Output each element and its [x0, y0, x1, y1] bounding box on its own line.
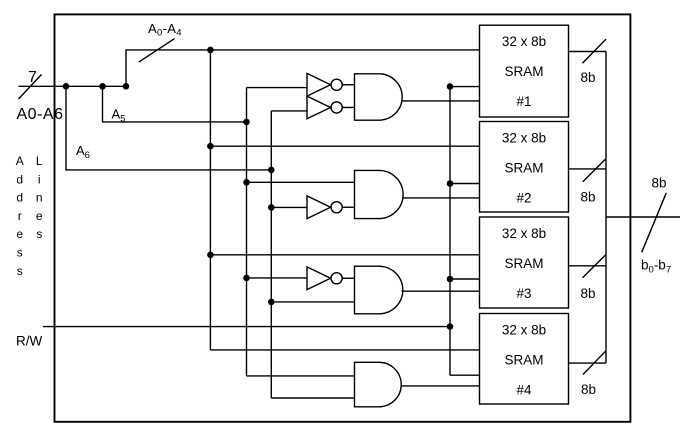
label Lines (vertical)	[36, 154, 43, 241]
wire A5 to AND gate 2 top input	[247, 181, 355, 183]
svg-text:SRAM: SRAM	[504, 64, 543, 79]
node junction on input line (A6 tap)	[63, 83, 70, 90]
SRAM #4 box	[480, 314, 569, 405]
wire A6 to AND gate 4 bottom input	[271, 397, 354, 399]
wire A6 branch	[66, 86, 271, 170]
wire U2 bubble to AND1	[342, 106, 354, 108]
wire A5 to inverter U5	[247, 277, 308, 279]
wire A6 to inverter U2	[271, 110, 307, 112]
wire R/W to SRAM4	[450, 374, 480, 376]
wire A6 to AND gate 3 bottom input	[271, 301, 354, 303]
wire A0-A4 to SRAM4	[210, 349, 479, 351]
SRAM #2 box	[480, 122, 569, 213]
wire R/W to SRAM1	[450, 86, 480, 88]
svg-text:7: 7	[28, 69, 37, 86]
wire R/W vertical rail	[449, 87, 451, 376]
svg-text:8b: 8b	[580, 70, 595, 85]
wire SRAM2 output bus	[569, 168, 607, 170]
wire A5 vertical rail	[246, 88, 248, 376]
wire A5 to inverter U1	[247, 87, 308, 89]
wire R/W input line	[43, 326, 450, 328]
svg-text:A0-A6: A0-A6	[17, 106, 64, 123]
svg-text:#2: #2	[516, 191, 531, 206]
wire A6 to inverter U4	[271, 206, 307, 208]
svg-text:#1: #1	[516, 94, 531, 109]
svg-text:32 x 8b: 32 x 8b	[502, 226, 546, 241]
AND gate 2	[355, 170, 404, 218]
wire AND2 output to SRAM2	[402, 197, 480, 199]
svg-text:SRAM: SRAM	[504, 256, 543, 271]
node junction A5 joins rail	[243, 119, 250, 126]
wire U5 bubble to AND3	[342, 277, 354, 279]
AND gate 3	[355, 266, 403, 314]
svg-text:d: d	[16, 172, 23, 186]
inverter U1 (A5, gate1 top)	[307, 73, 331, 96]
node junction on input line (A5 tap)	[99, 83, 106, 90]
wire A6 vertical rail	[270, 111, 272, 398]
node junction A6 joins rail	[268, 167, 275, 174]
wire R/W to SRAM2	[450, 183, 480, 185]
wire SRAM3 output bus	[569, 265, 607, 267]
inverter U5 (A5, gate3 top)	[307, 267, 331, 290]
wire U1 bubble to AND1	[342, 84, 354, 86]
node junction on input line (A0-A4 tap)	[123, 83, 130, 90]
bus slash SRAM2 output	[583, 159, 606, 182]
wire A5 to AND gate 4 top input	[247, 375, 355, 377]
svg-text:8b: 8b	[580, 286, 595, 301]
SRAM #1 box	[480, 25, 569, 117]
wire U4 bubble to AND2	[342, 206, 354, 208]
node junction A6 to inverter U4	[268, 204, 275, 211]
bus slash on A0-A6 input	[19, 75, 42, 100]
svg-text:s: s	[36, 227, 42, 241]
svg-text:s: s	[17, 246, 23, 260]
svg-text:32 x 8b: 32 x 8b	[502, 131, 546, 146]
wire SRAM4 output bus	[569, 362, 607, 364]
wire shared output bus vertical	[605, 52, 607, 364]
wire A0-A4 to SRAM2	[210, 145, 479, 147]
wire SRAM1 output bus	[569, 51, 607, 53]
wire main data output	[606, 216, 680, 218]
node junction R/W to SRAM1	[447, 83, 454, 90]
bus slash SRAM4 output	[583, 351, 606, 375]
wire A0-A4 to SRAM3	[210, 254, 479, 256]
svg-text:n: n	[36, 191, 43, 205]
svg-text:32 x 8b: 32 x 8b	[502, 34, 546, 49]
wire AND1 output to SRAM1	[402, 100, 480, 102]
svg-text:A: A	[16, 154, 24, 168]
wire AND3 output to SRAM3	[402, 290, 480, 292]
node junction R/W to SRAM2	[447, 180, 454, 187]
node junction A5 to inverter U5	[243, 275, 250, 282]
wire A0-A6 input line	[19, 85, 127, 87]
node junction A6 to gate 3	[268, 299, 275, 306]
SRAM #3 box	[480, 217, 569, 308]
node junction R/W to SRAM3	[447, 276, 454, 283]
svg-text:SRAM: SRAM	[504, 353, 543, 368]
border frame	[55, 14, 631, 421]
svg-text:e: e	[16, 227, 23, 241]
svg-text:SRAM: SRAM	[504, 161, 543, 176]
bus slash SRAM3 output	[583, 255, 607, 278]
svg-text:d: d	[16, 191, 23, 205]
svg-text:8b: 8b	[651, 176, 666, 191]
inverter U2 (A6, gate1 bottom)	[307, 96, 331, 119]
node junction A0-A4 rail top	[207, 47, 214, 54]
svg-text:s: s	[17, 264, 23, 278]
svg-text:32 x 8b: 32 x 8b	[502, 323, 546, 338]
svg-text:#4: #4	[516, 383, 532, 398]
node junction A0-A4 to SRAM3	[207, 252, 214, 259]
svg-text:e: e	[36, 209, 43, 223]
svg-text:R/W: R/W	[16, 334, 43, 349]
AND gate 1 (U3)	[355, 74, 403, 120]
node junction A0-A4 to SRAM2	[207, 143, 214, 150]
inverter U4 (A6, gate2 bottom)	[307, 196, 331, 219]
label Address (vertical)	[16, 154, 24, 278]
bus slash on A0-A4	[139, 39, 175, 63]
svg-text:i: i	[38, 172, 41, 186]
svg-text:8b: 8b	[580, 189, 595, 204]
svg-text:A0-A4: A0-A4	[148, 21, 182, 39]
wire R/W to SRAM3	[450, 278, 480, 280]
svg-text:8b: 8b	[581, 382, 596, 397]
wire A0-A4 vertical rail	[209, 50, 211, 350]
svg-text:b0-b7: b0-b7	[641, 258, 671, 276]
node junction A5 to gate 2	[243, 179, 250, 186]
svg-text:r: r	[18, 209, 22, 223]
AND gate 4	[355, 362, 402, 407]
bus slash main output	[642, 193, 667, 253]
wire A0-A4 branch up	[126, 50, 480, 86]
svg-text:L: L	[36, 154, 43, 168]
node junction R/W joins rail	[447, 323, 454, 330]
svg-text:#3: #3	[516, 286, 531, 301]
bus slash SRAM1 output	[582, 39, 606, 63]
wire AND4 output to SRAM4	[401, 385, 480, 387]
svg-text:A6: A6	[76, 143, 90, 161]
wire A5 branch	[103, 86, 247, 122]
